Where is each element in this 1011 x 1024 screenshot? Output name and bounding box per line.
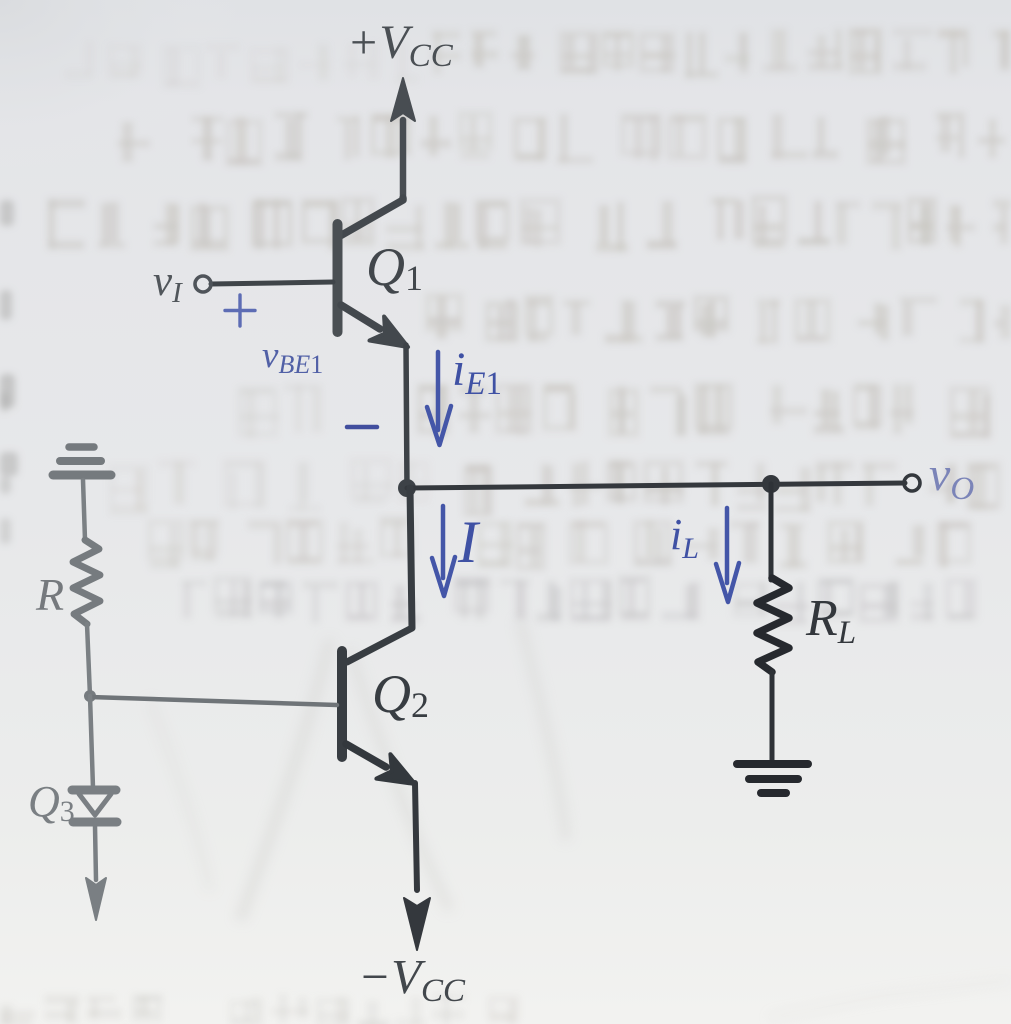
page edge shadow bottom right bbox=[770, 980, 1011, 1018]
faint ghost show-through lower area bbox=[150, 620, 566, 920]
wire collector Q1 to VCC bbox=[340, 198, 403, 236]
wire node to RL bbox=[769, 484, 774, 580]
wire Q2 emitter to -VCC arrow bbox=[404, 783, 430, 950]
current arrow I (blue) bbox=[432, 506, 455, 596]
svg-text:I: I bbox=[457, 509, 481, 575]
Q1 emitter arrowhead bbox=[370, 317, 409, 348]
transistor Q2 base bar bbox=[337, 651, 347, 757]
current arrow iE1 (blue) bbox=[427, 352, 451, 445]
diode-connected Q3 bbox=[72, 790, 117, 822]
Q1 input terminal circle bbox=[195, 276, 211, 292]
wire node B to Q2 base bbox=[90, 697, 337, 705]
current arrow iL (blue) bbox=[716, 508, 739, 602]
Q1 emitter wire bbox=[341, 305, 380, 329]
transistor Q1 base bar bbox=[333, 224, 343, 332]
svg-text:R: R bbox=[35, 569, 64, 620]
wire node B to Q3 bbox=[90, 696, 93, 788]
wire Q1 emitter to node bbox=[406, 345, 407, 489]
wire Q3 down with arrow bbox=[86, 826, 106, 920]
resistor RL bbox=[757, 578, 789, 672]
ground (top left, inverted) bbox=[53, 447, 111, 475]
label + (blue) bbox=[225, 295, 255, 326]
node B junction dot bbox=[84, 690, 96, 702]
wire RL to ground bbox=[770, 672, 775, 762]
VCC supply arrow bbox=[391, 78, 415, 200]
Q2 emitter arrowhead bbox=[376, 754, 415, 784]
output terminal circle vO bbox=[904, 475, 920, 491]
node A junction dot bbox=[398, 479, 416, 497]
wire ground to R bbox=[83, 480, 85, 540]
output wire node to vO bbox=[407, 483, 905, 488]
Q2 emitter wire bbox=[346, 744, 386, 767]
wire node to Q2 collector bbox=[347, 488, 412, 662]
Q1 base wire bbox=[211, 282, 333, 284]
node RL junction dot bbox=[762, 475, 780, 493]
label minus (blue) bbox=[347, 425, 377, 430]
resistor R bbox=[73, 540, 100, 624]
wire R to node B bbox=[87, 624, 90, 696]
ground (RL) bbox=[737, 764, 808, 793]
